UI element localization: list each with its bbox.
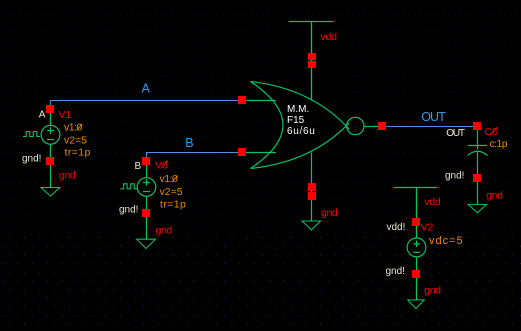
svg-text:gnd!: gnd! bbox=[386, 266, 405, 277]
slash on v1:0 of V0 bbox=[172, 176, 177, 182]
svg-text:V1: V1 bbox=[59, 109, 72, 121]
voltage source V1 body bbox=[23, 110, 60, 188]
ground symbol V2 bbox=[408, 300, 424, 309]
wire A blue bbox=[51, 101, 244, 113]
svg-text:A: A bbox=[142, 81, 151, 95]
NOR gate output stub bbox=[364, 126, 379, 128]
svg-text:6u/6u: 6u/6u bbox=[287, 126, 316, 137]
white labels bbox=[22, 110, 465, 277]
svg-text:vdd!: vdd! bbox=[387, 222, 406, 233]
svg-text:gnd: gnd bbox=[321, 207, 338, 219]
svg-text:gnd!: gnd! bbox=[22, 154, 41, 165]
svg-text:v2=5: v2=5 bbox=[64, 134, 87, 146]
svg-text:F15: F15 bbox=[287, 115, 305, 126]
pin V2 plus bbox=[412, 218, 420, 226]
svg-text:vdd: vdd bbox=[320, 31, 337, 43]
svg-text:B: B bbox=[185, 136, 193, 150]
pin NOR input A bbox=[238, 96, 246, 104]
pin V0 plus bbox=[142, 157, 150, 165]
svg-text:vdd: vdd bbox=[424, 196, 441, 208]
pin V2 minus bbox=[412, 270, 420, 278]
svg-text:V0: V0 bbox=[155, 160, 168, 172]
pin squares (red) bbox=[46, 53, 481, 278]
pin NOR input B bbox=[238, 148, 246, 156]
svg-text:tr=1p: tr=1p bbox=[65, 147, 91, 159]
svg-text:gnd: gnd bbox=[156, 225, 173, 237]
pin V1 minus bbox=[46, 157, 54, 165]
svg-text:gnd: gnd bbox=[486, 190, 503, 202]
NOR gate U1 input stubs bbox=[246, 101, 276, 153]
capacitor C0 body bbox=[468, 126, 488, 204]
svg-text:tr=1p: tr=1p bbox=[160, 198, 186, 210]
voltage source V2 body bbox=[407, 238, 426, 300]
svg-text:v1:0: v1:0 bbox=[64, 122, 83, 134]
svg-text:gnd: gnd bbox=[424, 285, 441, 297]
pin gate gnd upper bbox=[308, 183, 316, 191]
svg-text:vdc=5: vdc=5 bbox=[429, 235, 464, 247]
slash on C0 designator bbox=[491, 127, 497, 135]
ground symbol V1 bbox=[41, 188, 60, 197]
slashed zero marks bbox=[77, 124, 497, 181]
pin V1 plus bbox=[46, 105, 54, 113]
voltage source V0 body bbox=[120, 162, 155, 239]
pin C0 bottom bbox=[473, 174, 481, 182]
vdd rail V2 bbox=[394, 188, 438, 239]
pin vdd lower bbox=[308, 61, 316, 68]
svg-text:A: A bbox=[39, 110, 46, 121]
pin gate gnd lower bbox=[308, 192, 316, 200]
gate text bbox=[287, 104, 316, 137]
svg-text:V2: V2 bbox=[421, 222, 434, 234]
svg-text:gnd: gnd bbox=[59, 170, 76, 182]
vdd rail above gate bbox=[289, 22, 334, 101]
net labels blue bbox=[142, 81, 447, 150]
ground symbol V0 bbox=[137, 239, 156, 248]
gnd line below gate bbox=[311, 153, 313, 222]
svg-text:c:1p: c:1p bbox=[490, 138, 508, 150]
svg-text:OUT: OUT bbox=[421, 110, 446, 124]
wire B blue bbox=[147, 153, 244, 163]
red labels bbox=[59, 31, 504, 296]
pin vdd upper bbox=[308, 53, 316, 60]
NOR gate output bubble bbox=[347, 117, 364, 134]
svg-text:gnd!: gnd! bbox=[119, 205, 138, 216]
ground symbol C0 bbox=[468, 204, 486, 212]
slash on v1:0 of V1 bbox=[77, 124, 82, 130]
svg-text:B: B bbox=[135, 161, 142, 172]
ground symbol below gate bbox=[302, 221, 321, 230]
svg-text:gnd!: gnd! bbox=[445, 170, 464, 181]
svg-text:v1:0: v1:0 bbox=[160, 173, 179, 185]
svg-text:C0: C0 bbox=[485, 126, 499, 138]
orange property labels bbox=[64, 122, 508, 248]
pin NOR output bbox=[378, 122, 386, 130]
wire OUT blue bbox=[382, 126, 478, 128]
pin V0 minus bbox=[142, 209, 150, 217]
slash on V0 designator bbox=[161, 161, 167, 169]
svg-text:M.M.: M.M. bbox=[287, 104, 309, 115]
svg-text:OUT: OUT bbox=[446, 128, 465, 139]
svg-text:v2=5: v2=5 bbox=[160, 186, 183, 198]
NOR gate U1 body bbox=[251, 82, 284, 169]
pin OUT wire end bbox=[473, 122, 481, 130]
